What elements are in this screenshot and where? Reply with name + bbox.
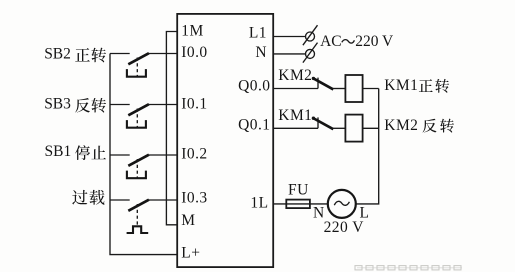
svg-text:AC: AC [320,33,342,50]
svg-text:FU: FU [288,182,309,199]
svg-text:L+: L+ [181,245,200,262]
svg-text:220 V: 220 V [324,219,365,236]
svg-text:L1: L1 [249,24,267,41]
svg-text:KM2: KM2 [278,67,312,84]
svg-text:SB2: SB2 [44,45,71,62]
svg-text:KM1: KM1 [278,107,312,124]
svg-text:SB3: SB3 [44,96,71,113]
svg-text:N: N [255,44,267,61]
svg-text:M: M [181,212,195,229]
svg-text:1L: 1L [250,195,268,212]
svg-text:SB1: SB1 [45,143,72,160]
svg-text:1M: 1M [181,22,203,39]
svg-text:I0.2: I0.2 [181,146,207,163]
svg-text:I0.3: I0.3 [181,190,207,207]
svg-text:Q0.1: Q0.1 [238,117,270,134]
svg-text:I0.0: I0.0 [181,44,207,61]
svg-text:I0.1: I0.1 [181,95,207,112]
svg-text:KM2: KM2 [384,117,418,134]
svg-text:Q0.0: Q0.0 [238,77,270,94]
svg-text:220 V: 220 V [355,33,394,50]
svg-text:KM1: KM1 [384,77,418,94]
